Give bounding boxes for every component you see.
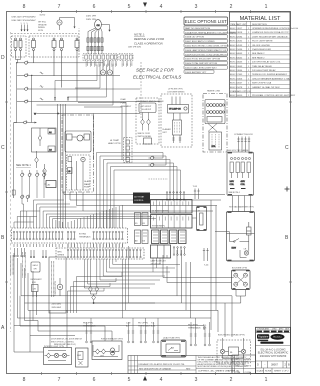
svg-text:CLASS A OPERATION: CLASS A OPERATION	[134, 42, 164, 46]
option terminal pair CW	[126, 323, 134, 343]
svg-text:T.L.: T.L.	[151, 323, 155, 325]
compressor run capacitor arrow	[101, 25, 109, 31]
relay coil A1	[48, 129, 55, 135]
cabinet dashed boundary top	[11, 33, 79, 35]
svg-text:UV FILTER OPTN: UV FILTER OPTN	[168, 89, 183, 91]
svg-text:ELEC 74643: ELEC 74643	[230, 66, 243, 68]
disp wires	[223, 338, 244, 359]
hot gas lamp	[244, 249, 249, 256]
long bus wire 4	[18, 258, 212, 330]
feed left rail	[17, 63, 32, 123]
svg-text:L1 N 24V CM HT: L1 N 24V CM HT	[152, 211, 169, 213]
svg-text:USE 208V 1PH 60/50HZ: USE 208V 1PH 60/50HZ	[12, 20, 37, 22]
svg-text:ELEC 34567: ELEC 34567	[230, 83, 243, 85]
svg-text:230/240V 1PH 50/60HZ: 230/240V 1PH 50/60HZ	[260, 355, 287, 358]
svg-text:DISCONNECT SWITCH OPTION: DISCONNECT SWITCH OPTION	[137, 101, 165, 103]
heater X wires	[208, 124, 217, 132]
interior lamp 2	[62, 353, 66, 357]
svg-text:SEE PG 2 FOR: SEE PG 2 FOR	[138, 133, 151, 135]
pd option terminals pair	[83, 323, 96, 343]
detergent feeder label	[31, 279, 43, 284]
svg-text:24V TSTAT: 24V TSTAT	[134, 196, 145, 199]
force exhaust option enclosure	[92, 338, 123, 360]
tap change transformer enclosure	[227, 149, 254, 196]
heater connector enclosure	[203, 90, 227, 153]
force exhaust switch 2	[100, 349, 105, 358]
svg-text:TERMINALS: TERMINALS	[83, 325, 96, 328]
booster element 4	[243, 282, 247, 286]
svg-text:6: 6	[93, 4, 96, 10]
tl at terminals pair	[203, 325, 211, 346]
svg-text:USE 240V 1PH 60/50HZ: USE 240V 1PH 60/50HZ	[12, 17, 37, 19]
pump aux rect LB	[68, 168, 73, 174]
switch S2	[35, 151, 39, 168]
strip drop wire 1	[55, 65, 97, 97]
svg-text:ELEC 04643: ELEC 04643	[230, 62, 243, 64]
svg-text:CODE: CODE	[245, 372, 252, 374]
svg-text:WASH: WASH	[84, 183, 90, 186]
wire CB1 to feed bus	[16, 57, 21, 63]
svg-text:Electrolux: Electrolux	[273, 336, 281, 339]
long bus wire 1	[21, 250, 232, 337]
relay coil A3	[48, 146, 55, 152]
quality ab option enclosure	[161, 337, 186, 358]
svg-text:QUALITY AB OPTN: QUALITY AB OPTN	[163, 337, 180, 340]
svg-text:TERM BLOCK JUMPER ASSEMBLY: TERM BLOCK JUMPER ASSEMBLY	[252, 73, 288, 76]
supply terminal labels	[21, 23, 28, 25]
svg-text:ASSEMBLY: ASSEMBLY	[120, 105, 132, 108]
center vertical bus wires	[58, 104, 66, 228]
disconnect switch S5	[147, 113, 151, 131]
stub pair left A	[30, 250, 35, 258]
gfi note block	[38, 22, 47, 32]
svg-text:HEATER CONN: HEATER CONN	[207, 90, 221, 93]
supply rating labels	[12, 17, 37, 23]
svg-text:D: D	[257, 364, 259, 367]
svg-text:MUST BE RETURNED UPON REQUEST: MUST BE RETURNED UPON REQUEST TO OWNER C…	[198, 366, 248, 368]
svg-text:5000C ELEC ANTI-CO SPEED: 5000C ELEC ANTI-CO SPEED	[185, 40, 215, 43]
bottom sweep wire b	[25, 303, 113, 341]
svg-text:REMOVE 2 AND 3 FOR: REMOVE 2 AND 3 FOR	[134, 37, 164, 41]
pump drain motor M5	[57, 278, 63, 296]
terminal strip TB1 dashed	[83, 54, 118, 61]
svg-text:CUSTOMER WIRING: CUSTOMER WIRING	[167, 92, 185, 94]
svg-text:2: 2	[230, 4, 233, 10]
stub pair left B	[42, 250, 47, 258]
TB3 to TB4 connector wires	[68, 243, 122, 248]
jumper terminal pair B	[67, 97, 69, 102]
booster element 2	[243, 273, 247, 277]
svg-text:BOOSTER OPTN: BOOSTER OPTN	[232, 268, 248, 270]
compressor assembly dashed enclosure	[79, 28, 141, 118]
junction wire at W	[34, 113, 140, 116]
svg-text:208V 60HZ: 208V 60HZ	[52, 307, 62, 309]
feed contact row 1	[16, 61, 103, 65]
transformer T1 winding B	[241, 157, 251, 186]
svg-text:SCALE: SCALE	[257, 370, 265, 373]
contactor K1 pole 4	[75, 38, 79, 101]
svg-text:SWITCH DETAIL: SWITCH DETAIL	[138, 135, 152, 138]
relay stack bottom cells	[151, 245, 171, 266]
relay coil A2	[45, 181, 57, 188]
svg-text:HT PM RN FL: HT PM RN FL	[152, 226, 166, 228]
svg-text:ITEM PART LIST: ITEM PART LIST	[230, 23, 247, 26]
control bus horizontals	[34, 200, 157, 219]
switch S1	[38, 128, 42, 146]
svg-text:240V 60HZ: 240V 60HZ	[52, 304, 62, 306]
title block	[256, 327, 291, 373]
float switch FS2	[95, 259, 99, 292]
control chain box	[32, 128, 57, 152]
aux cells labels	[135, 223, 146, 243]
heater element block	[209, 132, 222, 150]
disp lamp B	[241, 349, 245, 353]
wash pump enclosure	[62, 115, 94, 192]
svg-text:ELEC 23456: ELEC 23456	[230, 78, 243, 80]
svg-text:INTERIOR LIGHT OPTN: INTERIOR LIGHT OPTN	[44, 346, 65, 348]
stub pair far left B	[21, 248, 26, 257]
svg-text:ELEC 84643: ELEC 84643	[230, 53, 243, 55]
zone tick marks top	[42, 10, 251, 13]
pump wires	[72, 161, 84, 190]
svg-text:SEE PAGE 2: SEE PAGE 2	[252, 52, 265, 55]
svg-text:D: D	[1, 55, 5, 61]
svg-text:240V: 240V	[230, 181, 235, 183]
feed contacts to relay stack	[149, 156, 155, 167]
svg-text:GLASS: GLASS	[84, 180, 91, 183]
contactor K1 pole 1	[32, 38, 36, 63]
circuit breaker CB1 dashed enclosure	[12, 36, 27, 57]
svg-text:ELEC 84642: ELEC 84642	[230, 57, 243, 59]
svg-text:PD OPTN: PD OPTN	[188, 325, 198, 327]
svg-text:GFI: GFI	[34, 269, 37, 271]
wire left rail to control	[14, 123, 17, 199]
svg-text:EXTRA: EXTRA	[79, 233, 86, 236]
svg-text:GFI ALRM: GFI ALRM	[38, 23, 47, 26]
terminal strip TB2 dashed	[119, 54, 133, 61]
pump motor M4	[81, 157, 85, 161]
svg-text:DUAL: DUAL	[121, 98, 126, 101]
relay stack terminal row 2	[151, 215, 193, 229]
force exhaust relay oval	[110, 348, 115, 355]
svg-text:24V HIGH TEMP RELAY: 24V HIGH TEMP RELAY	[252, 69, 276, 72]
zone tick marks sides	[5, 102, 292, 282]
svg-text:5000F ELECTRONIC COND LEVEL/P: 5000F ELECTRONIC COND LEVEL/PHOTO	[185, 54, 228, 56]
svg-text:MATERIAL LIST: MATERIAL LIST	[240, 16, 281, 22]
stack bottom drop wires	[153, 258, 160, 272]
svg-text:ELEC 74644: ELEC 74644	[230, 70, 243, 72]
svg-text:PD OPTN: PD OPTN	[83, 323, 93, 325]
svg-text:5000K BATTERY OPT: 5000K BATTERY OPT	[185, 71, 207, 74]
svg-text:ELEC 44532: ELEC 44532	[230, 41, 243, 43]
aux contact row	[21, 170, 47, 198]
hi temp label	[108, 140, 121, 145]
uv ballast	[168, 105, 189, 114]
terminal strip wire labels	[86, 62, 132, 68]
svg-text:SEE NOTE 4: SEE NOTE 4	[229, 192, 240, 194]
detergent feeder box	[32, 285, 39, 292]
high limit option box	[192, 207, 207, 231]
tap to hot gas wires	[233, 196, 251, 212]
hot gas option enclosure	[227, 206, 255, 262]
line L2 wire with arrow	[24, 25, 26, 32]
svg-text:3: 3	[195, 4, 198, 10]
contactor K1 pole 2	[52, 38, 56, 76]
disp control rect	[229, 347, 239, 356]
hot gas internal wires	[215, 232, 249, 258]
svg-text:415V: 415V	[241, 181, 246, 183]
aux fan bracket wire	[60, 18, 76, 31]
frigidaire sub bar	[258, 340, 269, 342]
svg-text:CABINET GLOBAL 7W 240V: CABINET GLOBAL 7W 240V	[252, 86, 280, 89]
booster element 3	[234, 282, 238, 286]
zone numbers bottom	[23, 377, 268, 383]
svg-text:ELEC 45678: ELEC 45678	[230, 87, 243, 89]
svg-text:ELEC 74617: ELEC 74617	[230, 28, 243, 30]
svg-text:STANDARD OPTION: STANDARD OPTION	[230, 90, 251, 93]
interior light option enclosure	[44, 346, 72, 365]
switch S3	[43, 164, 47, 179]
svg-text:COPYRGT _SS_ SHEETS CHAPTER_AL: COPYRGT _SS_ SHEETS CHAPTER_AL	[198, 370, 240, 373]
svg-text:HOT GAS SANITIZER OPTN: HOT GAS SANITIZER OPTN	[229, 206, 254, 209]
svg-text:5000J DUAL LEVEL/LIGHT W/LT: 5000J DUAL LEVEL/LIGHT W/LT	[185, 67, 217, 70]
svg-text:PD OPTN: PD OPTN	[138, 323, 148, 325]
disconnect switch S4	[141, 113, 145, 131]
svg-text:UV LAMP ON: UV LAMP ON	[169, 108, 181, 111]
disconnect switch option enclosure	[136, 98, 164, 144]
long drop wires right of stack	[211, 200, 216, 318]
hot gas thermostat contact	[230, 239, 244, 250]
overload row OL2	[87, 46, 103, 50]
svg-text:MFD: MFD	[58, 252, 63, 254]
booster element 1	[234, 273, 238, 277]
control relay dark label box	[133, 193, 150, 204]
svg-text:REV DESCRIPTION OF CHANGE: REV DESCRIPTION OF CHANGE	[139, 367, 172, 370]
svg-text:TEMP: TEMP	[113, 140, 120, 142]
zone numbers top	[23, 4, 268, 10]
transformer T1 winding A	[230, 157, 240, 186]
svg-text:LIGHT HOLDER W/ WHT LED/BULB: LIGHT HOLDER W/ WHT LED/BULB	[252, 36, 288, 38]
notes paragraph	[198, 356, 251, 368]
svg-text:SEE PAGE 2 FOR: SEE PAGE 2 FOR	[136, 68, 174, 73]
svg-text:TERMINALS: TERMINALS	[188, 327, 201, 330]
svg-text:5000A HIGH-TEMP ALARM W/ LT G: 5000A HIGH-TEMP ALARM W/ LT GT-LIGHT ALA…	[185, 31, 236, 34]
svg-text:8: 8	[23, 377, 26, 383]
pump drain voltage labels	[52, 304, 62, 310]
svg-text:PILOT LIGHT WHITE: PILOT LIGHT WHITE	[252, 41, 273, 43]
svg-text:208V 1PH: 208V 1PH	[86, 19, 96, 21]
material list table	[230, 12, 301, 97]
vertical sensor label pair 1	[11, 255, 13, 275]
svg-text:15A FUSEHOLDER: 15A FUSEHOLDER	[252, 48, 271, 51]
svg-text:ELECTRONIC DISP AID OPTN: ELECTRONIC DISP AID OPTN	[218, 334, 245, 337]
uv bottom terminals	[172, 135, 181, 143]
booster bottom stubs	[236, 290, 246, 300]
zone tick marks bottom	[42, 372, 251, 375]
revision and notes table	[128, 356, 250, 374]
stub pair far left A	[14, 248, 19, 257]
relay K4	[170, 230, 178, 244]
contactor K1 dashed enclosure	[29, 36, 79, 57]
svg-text:ELEC 32084: ELEC 32084	[230, 36, 243, 38]
svg-text:3: 3	[195, 377, 198, 383]
uv lamp unit	[173, 120, 182, 135]
svg-text:YEL-GROUP: YEL-GROUP	[141, 109, 152, 111]
svg-text:240V--415V TAP CHANGE: 240V--415V TAP CHANGE	[227, 149, 249, 152]
svg-text:7: 7	[58, 377, 61, 383]
registration cross right	[285, 187, 290, 192]
svg-text:24V SPST RELAY 240V COIL: 24V SPST RELAY 240V COIL	[252, 61, 281, 64]
T-24 transformer bracket	[194, 189, 200, 200]
detergent feeder stubs	[33, 292, 37, 298]
svg-text:6: 6	[93, 377, 96, 383]
interior light wires	[45, 351, 70, 361]
contactor K1 pole 3	[60, 38, 64, 88]
main terminal strip TB3	[12, 228, 128, 243]
interior light switch	[47, 353, 51, 358]
uv flasher label	[163, 128, 172, 134]
pump motor M2	[100, 60, 105, 75]
svg-text:NOTE: NOTE	[38, 30, 44, 32]
booster feed wires	[163, 255, 234, 283]
svg-text:5000B LID OPTION: 5000B LID OPTION	[185, 37, 204, 39]
svg-text:TIME DELAY RELAY: TIME DELAY RELAY	[252, 65, 273, 68]
svg-text:38067: 38067	[271, 364, 279, 367]
disp lamp A	[220, 349, 224, 353]
svg-text:1: 1	[21, 23, 22, 25]
svg-text:PART NO DESCRIPTION: PART NO DESCRIPTION	[185, 27, 210, 30]
pump contactor inner box	[65, 131, 91, 152]
svg-text:REMOVE JMP (SEE PG 2): REMOVE JMP (SEE PG 2)	[54, 344, 76, 346]
svg-text:5: 5	[27, 23, 28, 25]
svg-text:PROGRAM. CONTROLLER W/ LIGHT A: PROGRAM. CONTROLLER W/ LIGHT ASSY	[252, 94, 296, 97]
svg-text:PUMP/DRN OPTN: PUMP/DRN OPTN	[55, 280, 57, 296]
svg-text:1: 1	[265, 4, 268, 10]
svg-text:PUMP: PUMP	[84, 187, 90, 189]
strip drop wire 3	[68, 65, 106, 98]
svg-text:DOOR SWITCH -OR- DOOR SWITCH: DOOR SWITCH -OR- DOOR SWITCH	[51, 339, 83, 341]
relay stack terminal row 1	[151, 200, 193, 214]
svg-text:ELEC 44533: ELEC 44533	[230, 45, 243, 47]
glass wash pump label	[84, 180, 91, 189]
svg-text:SWITCH SPST 20A: SWITCH SPST 20A	[252, 82, 272, 85]
svg-text:NONE: NONE	[265, 371, 272, 373]
zone letters left	[1, 55, 5, 331]
zone letters right	[285, 145, 289, 241]
feed contact row 3	[17, 86, 140, 91]
svg-text:TERMINALS: TERMINALS	[138, 325, 151, 328]
svg-text:CONNECT BLOCK: CONNECT BLOCK	[234, 134, 253, 136]
hot gas solenoid	[247, 222, 252, 235]
float switch FS1	[89, 259, 93, 292]
svg-text:ELEC OPTIONS LIST: ELEC OPTIONS LIST	[185, 19, 227, 24]
control bus drop wires to TB3	[34, 200, 123, 228]
transformer jumper bars	[230, 188, 246, 190]
disconnect switch inner box	[139, 103, 156, 113]
wire bus corners top right	[78, 103, 126, 161]
hot gas box divider	[227, 233, 255, 235]
connect block stubs	[237, 137, 250, 153]
overload row OL1	[87, 38, 103, 42]
svg-text:SEE PAGE 2: SEE PAGE 2	[252, 56, 265, 59]
stack bottom terminals	[173, 247, 185, 256]
door switch option box	[76, 348, 89, 367]
option terminal pair TL	[151, 323, 159, 343]
svg-text:DSW: DSW	[77, 355, 81, 357]
float switch FS3	[90, 292, 96, 301]
svg-text:OPERATION REVERSIBLE CONTROL/H: OPERATION REVERSIBLE CONTROL/Hz-LIGHT	[252, 27, 298, 30]
svg-text:4: 4	[160, 4, 163, 10]
svg-text:5000E LAMP SPEED-TIMER W/AUTO: 5000E LAMP SPEED-TIMER W/AUTO VOLT	[185, 49, 229, 52]
note 1 text	[134, 33, 164, 46]
TB4 to relay nested wires	[84, 259, 180, 288]
svg-text:LUMINOUS 240V-24V-120VA-12V T/: LUMINOUS 240V-24V-120VA-12V T/P	[252, 31, 289, 34]
nested corners right of pump box	[68, 272, 123, 313]
svg-text:DETERGENT: DETERGENT	[31, 279, 43, 281]
pump contact group	[67, 155, 91, 190]
booster cross wires	[238, 277, 245, 283]
svg-text:4: 4	[160, 377, 163, 383]
TB3 bottom labels	[14, 244, 122, 247]
svg-text:ANT GROUP: ANT GROUP	[141, 105, 152, 108]
svg-text:COIL: COIL	[230, 184, 234, 186]
svg-text:208V 1PH 60HZ: 208V 1PH 60HZ	[128, 47, 142, 49]
control feed contact	[14, 120, 37, 124]
compressor wires	[88, 28, 102, 54]
long bus wire 3	[28, 262, 218, 332]
quality ab relay	[166, 344, 180, 353]
long bus wire 5	[14, 253, 204, 330]
ground wire with arrow	[27, 25, 29, 32]
svg-text:TERMINALS: TERMINALS	[79, 236, 91, 239]
booster heater enclosure	[232, 270, 251, 290]
svg-text:WIRING: WIRING	[38, 27, 45, 29]
svg-text:3: 3	[24, 23, 25, 25]
svg-text:ELEC 50000: ELEC 50000	[230, 95, 243, 97]
svg-text:5: 5	[128, 4, 131, 10]
bottom drop wires from left rail	[14, 271, 67, 352]
compressor supply labels	[86, 16, 96, 22]
svg-text:NOTE 1:: NOTE 1:	[134, 33, 145, 37]
force exhaust switch 1	[96, 349, 100, 354]
svg-text:ON-OFF LIGHTED: ON-OFF LIGHTED	[252, 45, 271, 47]
interior lamp 1	[54, 353, 58, 357]
left drop wires to TB3	[14, 204, 40, 228]
bottom sweep wire c	[30, 310, 75, 352]
svg-text:DWG/ASSY PD-30 APVD PER ECN 12: DWG/ASSY PD-30 APVD PER ECN 12-0415 TBL	[139, 363, 186, 366]
svg-text:KDW: KDW	[232, 248, 237, 250]
svg-text:ELEC 12345: ELEC 12345	[230, 74, 243, 76]
svg-text:SHEET 1 OF 2: SHEET 1 OF 2	[274, 371, 289, 373]
commercial products bar	[260, 342, 283, 344]
svg-text:SEE NOTE 1: SEE NOTE 1	[16, 164, 31, 167]
feed contact row 2	[17, 72, 120, 77]
long bus wire 2	[25, 250, 226, 337]
svg-text:HEAT OPTN: HEAT OPTN	[108, 142, 121, 145]
booster return wire	[225, 299, 241, 303]
aux fan motor M0	[57, 20, 62, 25]
svg-text:REV: REV	[186, 368, 191, 370]
svg-text:GLT/D: GLT/D	[40, 15, 46, 17]
svg-text:SHUT OPTION + CONTROL: SHUT OPTION + CONTROL	[51, 341, 74, 343]
jumper terminal pair A	[54, 97, 56, 102]
elec options list	[184, 17, 236, 74]
svg-text:CONTROL: CONTROL	[134, 200, 145, 202]
svg-text:1: 1	[265, 377, 268, 383]
force exhaust wires	[93, 345, 119, 357]
long drop wires from TB strip	[122, 246, 128, 318]
option terminal pair PD2	[138, 323, 151, 343]
